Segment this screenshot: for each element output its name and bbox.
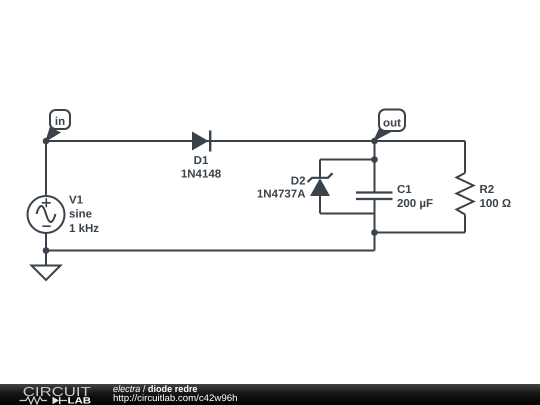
wire V1 bottom to ground: [45, 233, 47, 266]
label R2 value: [480, 184, 512, 210]
junction dot R2 bottom tap: [371, 229, 378, 236]
svg-text:D1: D1: [194, 155, 209, 167]
junction dot at out node: [371, 138, 378, 145]
svg-text:sine: sine: [69, 209, 92, 221]
node flag "in": [46, 110, 70, 141]
wire R2 bottom lead: [464, 215, 466, 233]
wire zener anode lead: [319, 196, 321, 214]
label D2 value: [257, 175, 306, 200]
capacitor C1: [356, 193, 393, 200]
node flag "out": [374, 110, 405, 141]
wire zener cathode lead: [319, 160, 321, 179]
svg-text:D2: D2: [291, 175, 306, 187]
wire top rail from node in to R2: [46, 140, 465, 142]
svg-text:C1: C1: [397, 184, 412, 196]
wire left vertical from in node to V1 top: [45, 141, 47, 196]
wire right vertical below C1: [374, 199, 376, 251]
footer text: [113, 384, 238, 404]
svg-text:V1: V1: [69, 195, 84, 207]
svg-text:R2: R2: [480, 184, 495, 196]
svg-text:http://circuitlab.com/c42w96h: http://circuitlab.com/c42w96h: [113, 393, 238, 404]
zener diode D2: [308, 173, 333, 196]
svg-text:1 kHz: 1 kHz: [69, 223, 99, 235]
wire zener top horizontal: [320, 159, 375, 161]
junction dot at in node: [43, 138, 50, 145]
wire zener bottom horizontal: [320, 213, 375, 215]
svg-text:in: in: [55, 116, 65, 128]
label C1 value: [397, 184, 433, 210]
footer bar: [0, 384, 540, 405]
junction dot V1 bottom: [43, 247, 50, 254]
CircuitLab logo: [20, 384, 92, 405]
svg-text:100 Ω: 100 Ω: [480, 198, 512, 210]
junction dot zener top tap: [371, 156, 378, 163]
diode D1: [192, 131, 210, 152]
svg-text:out: out: [383, 117, 401, 129]
wire R2 top lead: [464, 141, 466, 173]
svg-text:200 µF: 200 µF: [397, 198, 433, 210]
voltage source V1: [28, 196, 65, 233]
resistor R2: [457, 173, 474, 215]
wire right vertical above C1: [374, 141, 376, 193]
wire bottom rail: [46, 250, 375, 252]
ground: [32, 266, 61, 281]
wire R2 bottom to node: [375, 232, 466, 234]
label D1 value: [181, 155, 222, 181]
svg-text:LAB: LAB: [68, 395, 92, 405]
svg-text:1N4737A: 1N4737A: [257, 189, 306, 201]
label V1 value: [69, 195, 99, 235]
svg-text:1N4148: 1N4148: [181, 169, 222, 181]
